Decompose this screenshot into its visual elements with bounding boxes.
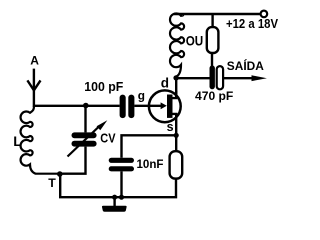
wire tap T to CV bottom xyxy=(60,147,86,174)
node drain junction dot xyxy=(173,75,178,80)
node source junction dot xyxy=(174,133,179,138)
capacitor 10nF plate 2 xyxy=(109,166,134,171)
variable capacitor CV arrow shaft xyxy=(68,127,99,157)
svg-text:SAÍDA: SAÍDA xyxy=(227,60,264,73)
wire gate lead xyxy=(134,105,162,107)
wire drain stub xyxy=(173,91,177,99)
inductor L tank coil xyxy=(21,106,60,174)
wire 10nF bottom lead xyxy=(120,171,122,197)
ground bar xyxy=(102,206,127,212)
wire supply rail top xyxy=(174,13,261,15)
wire ground bus xyxy=(60,174,176,197)
node ground junction dot 1 xyxy=(112,195,117,200)
svg-text:OU: OU xyxy=(186,32,204,48)
wire CV top lead xyxy=(84,106,86,133)
wire source stub xyxy=(173,114,177,135)
svg-text:CV: CV xyxy=(100,131,116,145)
svg-text:T: T xyxy=(48,176,56,190)
capacitor 470pF plate 1 xyxy=(210,65,215,89)
resistor R1 xyxy=(207,27,219,53)
antenna chevron arrowhead xyxy=(27,80,40,90)
wire output xyxy=(223,77,254,79)
node T junction dot xyxy=(57,171,63,177)
svg-text:10nF: 10nF xyxy=(137,157,164,171)
ground stem xyxy=(113,197,115,206)
wire source net to 10nF xyxy=(122,135,177,157)
terminal +12V open circle xyxy=(261,11,268,18)
svg-text:s: s xyxy=(167,120,174,134)
capacitor 470pF plate 2 xyxy=(217,66,223,89)
wire drain net xyxy=(173,78,210,98)
capacitor 100pF plate 2 xyxy=(128,95,134,119)
capacitor 100pF plate 1 xyxy=(120,95,126,119)
wire resistor R1 bottom lead xyxy=(211,53,213,67)
svg-text:+12 a 18V: +12 a 18V xyxy=(226,17,279,31)
svg-text:L: L xyxy=(13,133,22,149)
resistor R2 source xyxy=(170,151,183,178)
antenna lead and gate wire xyxy=(34,69,120,106)
inductor XRF choke xyxy=(170,13,184,77)
svg-text:g: g xyxy=(138,89,145,103)
node gate junction dot xyxy=(83,103,89,109)
capacitor 10nF plate 1 xyxy=(109,158,134,163)
variable capacitor CV plate 1 xyxy=(72,132,97,138)
wire resistor R1 top lead xyxy=(211,14,213,27)
variable capacitor CV arrowhead xyxy=(97,120,108,130)
node ground junction dot 2 xyxy=(119,195,124,200)
transistor Q1 JFET body circle xyxy=(149,90,181,122)
svg-text:100 pF: 100 pF xyxy=(84,80,123,94)
variable capacitor CV plate 2 xyxy=(72,141,97,147)
svg-text:A: A xyxy=(30,53,39,67)
output arrowhead xyxy=(252,75,267,81)
svg-text:d: d xyxy=(161,76,169,91)
svg-text:470 pF: 470 pF xyxy=(195,91,233,103)
gate arrowhead xyxy=(161,102,167,109)
JFET channel bar xyxy=(167,95,173,118)
